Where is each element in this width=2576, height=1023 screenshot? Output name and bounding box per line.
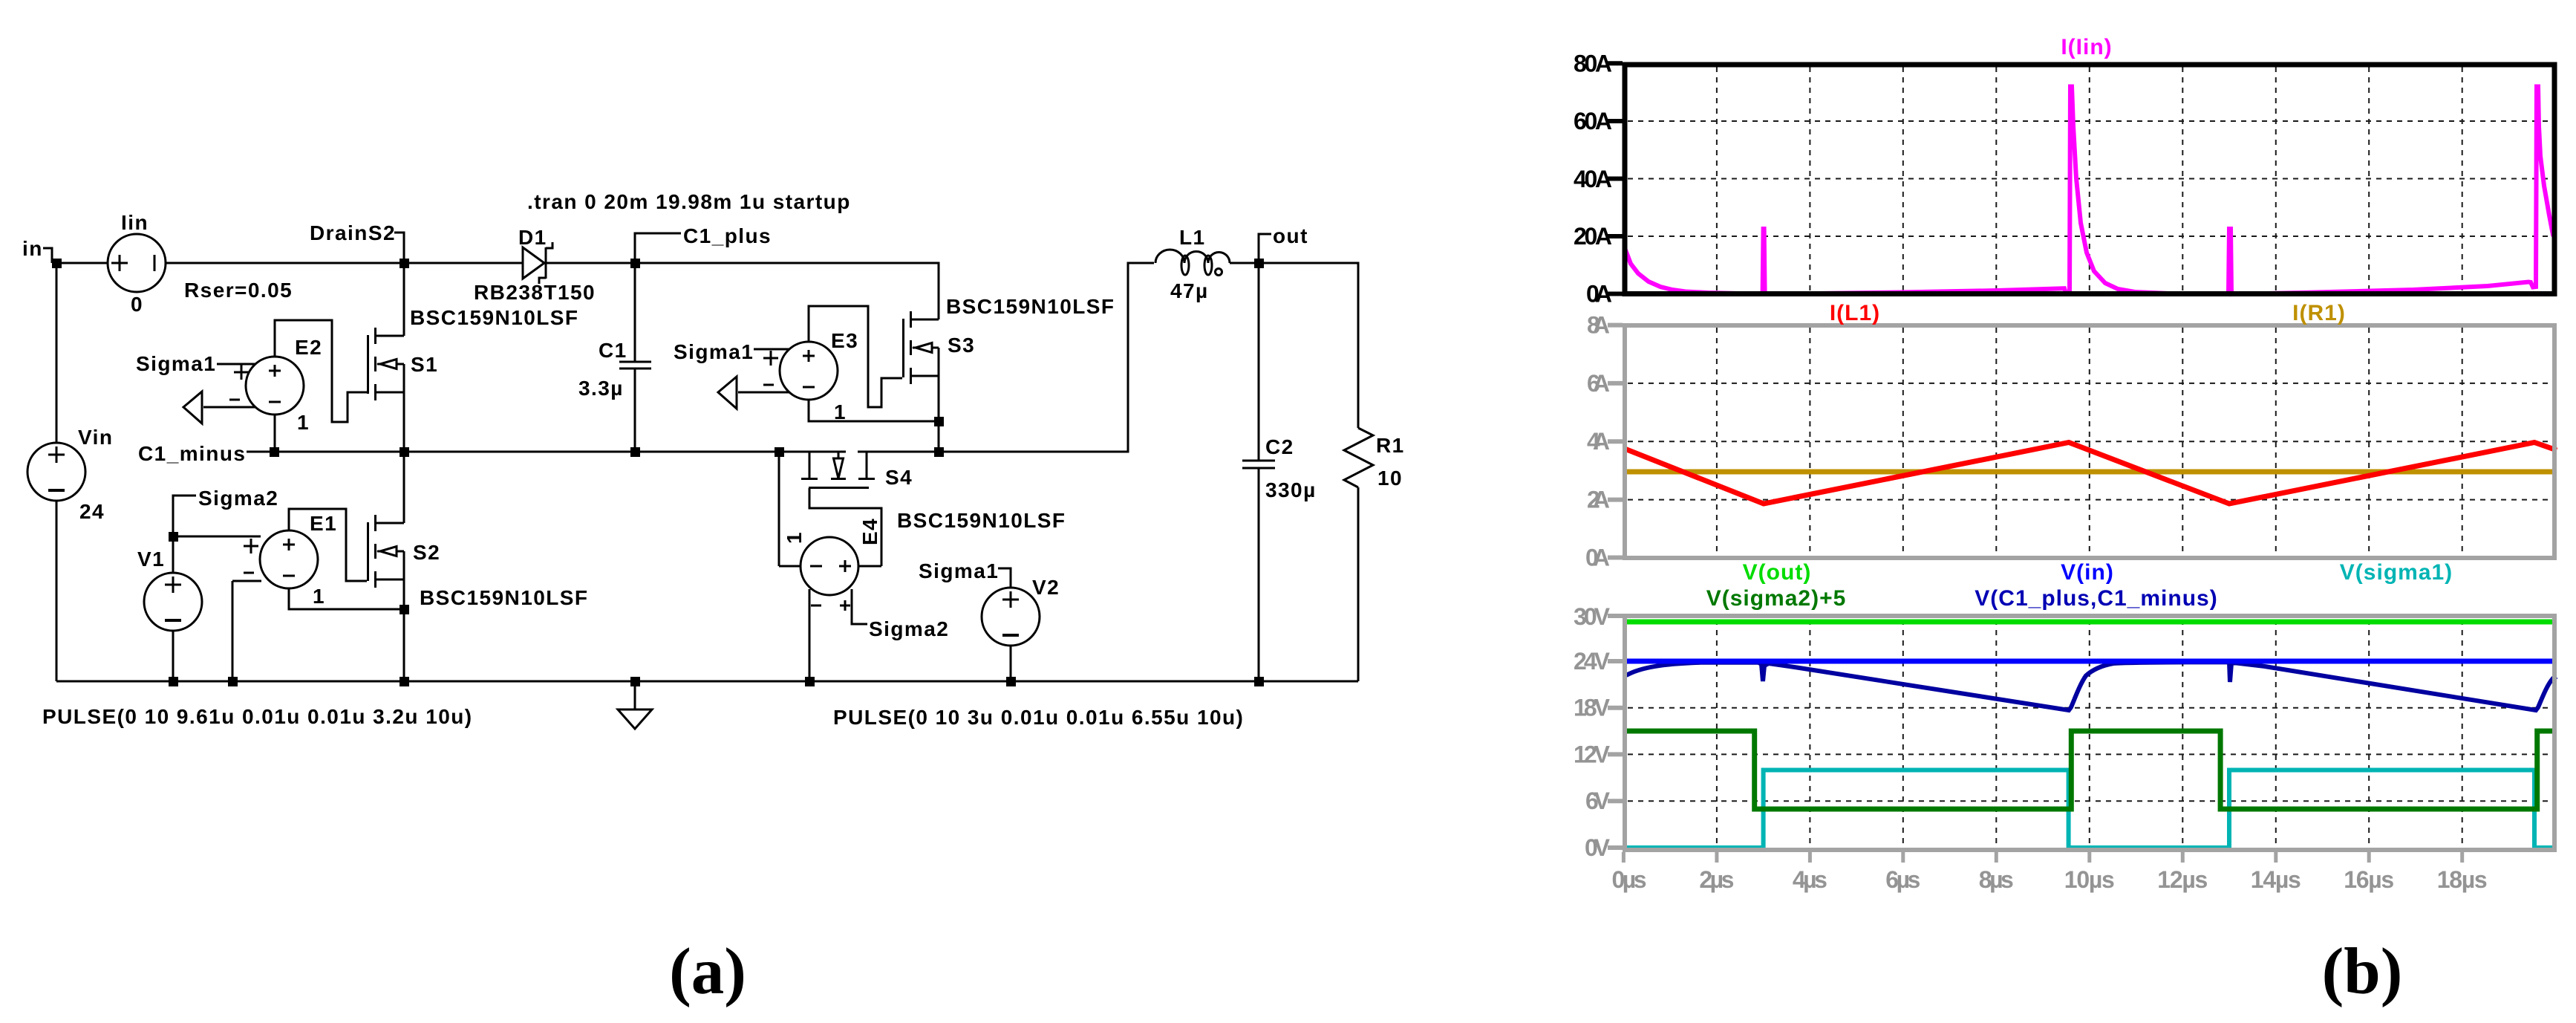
- inductor L1 47u: [1155, 250, 1230, 263]
- wire C1_minus rail right segment to L1: [858, 263, 1154, 452]
- svg-text:.tran 0 20m 19.98m 1u startup: .tran 0 20m 19.98m 1u startup: [527, 190, 851, 213]
- svg-text:Iin: Iin: [121, 211, 149, 234]
- svg-text:Sigma1: Sigma1: [136, 352, 216, 375]
- node out: [1259, 234, 1271, 263]
- svg-text:12µs: 12µs: [2157, 866, 2208, 893]
- svg-text:D1: D1: [518, 226, 547, 249]
- svg-text:S2: S2: [413, 541, 440, 564]
- plot 3 border: [1625, 616, 2554, 850]
- svg-text:out: out: [1273, 224, 1308, 247]
- wire E1 control -: [232, 581, 261, 681]
- wire DrainS2 to D1: [404, 262, 523, 264]
- transistor S1 BSC159N10LSF: [403, 263, 405, 452]
- svg-text:DrainS2: DrainS2: [310, 221, 396, 244]
- node in: [43, 248, 52, 263]
- svg-text:I(R1): I(R1): [2292, 301, 2346, 325]
- plot 3 y labels: [1574, 603, 1611, 861]
- svg-text:4A: 4A: [1587, 428, 1610, 455]
- svg-text:20A: 20A: [1574, 223, 1612, 250]
- svg-text:330µ: 330µ: [1265, 478, 1317, 501]
- svg-text:C2: C2: [1265, 435, 1294, 458]
- diode D1 RB238T150: [523, 247, 544, 279]
- svg-text:V(C1_plus,C1_minus): V(C1_plus,C1_minus): [1975, 586, 2217, 611]
- wire ground rail: [56, 681, 1358, 683]
- svg-text:BSC159N10LSF: BSC159N10LSF: [897, 509, 1066, 532]
- svg-text:1: 1: [834, 400, 847, 423]
- plot 1 y labels: [1574, 51, 1612, 308]
- wire E4 out- to rail: [779, 452, 800, 566]
- trace I(R1) dark yellow: [1625, 470, 2554, 475]
- resistor R1 10: [1344, 428, 1373, 487]
- svg-text:V(sigma1): V(sigma1): [2340, 560, 2453, 585]
- svg-text:Vin: Vin: [78, 426, 113, 449]
- plot 2 y ticks: [1608, 325, 1623, 558]
- wire E3 out+ to S3 gate: [809, 306, 902, 407]
- E source E1: [260, 530, 318, 588]
- svg-text:6A: 6A: [1587, 370, 1610, 397]
- svg-text:24V: 24V: [1574, 648, 1611, 675]
- ground: [634, 681, 636, 709]
- svg-text:C1_plus: C1_plus: [683, 224, 772, 247]
- wire in to Iin: [56, 262, 108, 264]
- wire S4 gate to E4: [809, 488, 881, 566]
- plot 2 border: [1625, 325, 2554, 558]
- svg-text:2A: 2A: [1587, 487, 1610, 513]
- svg-text:(a): (a): [669, 935, 746, 1008]
- capacitor C1 3.3u: [634, 263, 636, 452]
- svg-text:in: in: [22, 237, 43, 260]
- svg-text:Sigma1: Sigma1: [919, 559, 999, 582]
- node DrainS2: [394, 233, 404, 263]
- wire out to R1: [1259, 263, 1358, 428]
- svg-text:PULSE(0 10 3u 0.01u 0.01u 6.55: PULSE(0 10 3u 0.01u 0.01u 6.55u 10u): [833, 706, 1244, 729]
- svg-text:0A: 0A: [1586, 281, 1612, 308]
- svg-text:18µs: 18µs: [2437, 866, 2488, 893]
- node Sigma2 at V1: [173, 496, 196, 536]
- svg-text:14µs: 14µs: [2251, 866, 2301, 893]
- svg-text:E2: E2: [295, 336, 322, 359]
- svg-text:Sigma1: Sigma1: [674, 340, 754, 363]
- svg-text:E1: E1: [310, 512, 337, 535]
- svg-text:V(out): V(out): [1743, 560, 1812, 585]
- wire Iin to DrainS2: [166, 262, 404, 264]
- svg-text:10µs: 10µs: [2064, 866, 2115, 893]
- E source E2: [246, 357, 304, 415]
- svg-text:BSC159N10LSF: BSC159N10LSF: [420, 586, 588, 609]
- svg-text:0A: 0A: [1585, 545, 1610, 571]
- svg-text:0V: 0V: [1585, 834, 1611, 861]
- plot 3 y ticks: [1608, 616, 1623, 848]
- svg-text:Sigma2: Sigma2: [869, 617, 949, 640]
- trace I(Iin) magenta: [1625, 87, 2555, 295]
- voltage source Vin 24: [56, 263, 58, 681]
- svg-text:6µs: 6µs: [1885, 866, 1920, 893]
- svg-text:RB238T150: RB238T150: [474, 281, 596, 304]
- plot 2 y labels: [1585, 312, 1610, 571]
- svg-text:V(sigma2)+5: V(sigma2)+5: [1706, 586, 1847, 611]
- svg-text:12V: 12V: [1574, 741, 1611, 767]
- voltage source Iin (0, Rser=0.05): [108, 234, 166, 292]
- svg-text:Sigma2: Sigma2: [198, 487, 278, 510]
- node Sigma2 at E4: [852, 589, 867, 624]
- svg-text:18V: 18V: [1574, 695, 1611, 721]
- trace V(out) green: [1625, 620, 2554, 625]
- svg-text:BSC159N10LSF: BSC159N10LSF: [946, 295, 1115, 318]
- svg-text:C1: C1: [599, 339, 627, 362]
- svg-text:S3: S3: [948, 334, 975, 357]
- svg-text:Rser=0.05: Rser=0.05: [184, 279, 293, 302]
- E source E4 (rotated): [800, 537, 858, 595]
- transistor S2 BSC159N10LSF: [403, 452, 405, 609]
- node C1_plus: [635, 233, 681, 263]
- plot 2 I(L1)/I(R1) panel grid: [1628, 328, 2551, 556]
- wire E1 out- to S2 source: [289, 588, 404, 681]
- transistor S3 BSC159N10LSF: [938, 348, 940, 452]
- svg-text:47µ: 47µ: [1170, 279, 1209, 302]
- trace V(C1_plus,C1_minus) navy: [1626, 662, 2557, 710]
- wire E2 out+ to S1 gate: [275, 320, 367, 422]
- svg-text:24: 24: [79, 500, 105, 523]
- svg-text:L1: L1: [1179, 226, 1206, 249]
- wire E1 out+ to S2 gate: [289, 509, 367, 581]
- trace I(L1) red: [1625, 443, 2557, 504]
- svg-text:PULSE(0 10 9.61u 0.01u 0.01u 3: PULSE(0 10 9.61u 0.01u 0.01u 3.2u 10u): [42, 705, 473, 728]
- port flag at E2 control -: [203, 406, 255, 409]
- trace V(sigma1) cyan: [1625, 770, 2554, 848]
- svg-text:6V: 6V: [1585, 787, 1611, 814]
- svg-text:80A: 80A: [1574, 51, 1612, 77]
- wire E1 control +: [173, 536, 261, 538]
- voltage source V2: [982, 588, 1040, 646]
- wire C1_plus to S3 drain: [635, 263, 939, 319]
- plot 1 border: [1625, 65, 2554, 294]
- svg-text:8µs: 8µs: [1979, 866, 2014, 893]
- plot 3 voltage panel grid: [1628, 620, 2551, 848]
- svg-text:16µs: 16µs: [2344, 866, 2394, 893]
- svg-text:(b): (b): [2322, 935, 2403, 1008]
- wire E2 out- to C1_minus: [274, 415, 276, 452]
- svg-text:I(L1): I(L1): [1830, 301, 1880, 325]
- E source E3: [780, 342, 838, 400]
- plot 1 y ticks: [1608, 63, 1623, 293]
- svg-text:30V: 30V: [1574, 603, 1611, 630]
- svg-text:E4: E4: [858, 518, 881, 545]
- svg-text:V1: V1: [137, 548, 165, 571]
- wire D1 to C1_plus: [544, 262, 635, 264]
- svg-text:4µs: 4µs: [1793, 866, 1827, 893]
- svg-text:1: 1: [313, 585, 325, 608]
- svg-text:0: 0: [131, 293, 143, 316]
- svg-text:V(in): V(in): [2061, 560, 2114, 585]
- plot 3 x ticks: [1623, 852, 2462, 863]
- plot 1 I(Iin) panel grid: [1628, 67, 2551, 291]
- svg-text:C1_minus: C1_minus: [138, 442, 246, 465]
- svg-text:I(Iin): I(Iin): [2061, 35, 2112, 59]
- svg-text:1: 1: [297, 411, 310, 434]
- svg-text:S4: S4: [885, 466, 913, 489]
- wire E4 out+: [858, 565, 881, 568]
- transistor S4 BSC159N10LSF (rotated): [809, 452, 867, 478]
- capacitor C2 330u: [1258, 263, 1260, 681]
- svg-text:0µs: 0µs: [1612, 866, 1647, 893]
- plot 3 x labels: [1612, 866, 2488, 893]
- svg-text:2µs: 2µs: [1699, 866, 1734, 893]
- svg-text:E3: E3: [831, 329, 858, 352]
- svg-text:BSC159N10LSF: BSC159N10LSF: [410, 306, 578, 329]
- trace V(in) blue: [1625, 659, 2554, 664]
- svg-text:V2: V2: [1032, 576, 1060, 599]
- wire E4 control left to ground: [809, 589, 811, 681]
- svg-text:10: 10: [1377, 467, 1403, 490]
- svg-text:R1: R1: [1376, 434, 1405, 457]
- trace V(sigma2)+5 dark green: [1625, 731, 2554, 809]
- svg-text:60A: 60A: [1574, 108, 1612, 134]
- wire E3 out- to S3 source: [809, 400, 939, 421]
- svg-text:1: 1: [783, 531, 806, 544]
- svg-text:8A: 8A: [1587, 312, 1610, 339]
- svg-text:40A: 40A: [1574, 166, 1612, 192]
- voltage source V1: [172, 536, 175, 681]
- svg-text:3.3µ: 3.3µ: [578, 377, 624, 400]
- port flag at E3 control -: [738, 392, 789, 394]
- svg-text:S1: S1: [411, 353, 438, 376]
